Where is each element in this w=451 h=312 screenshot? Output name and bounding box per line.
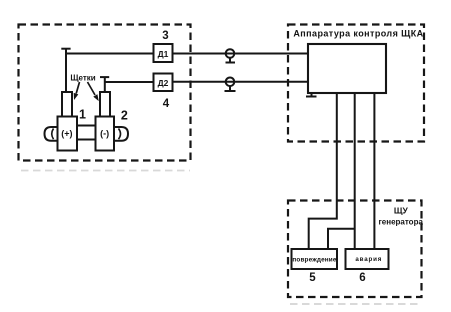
svg-text:Щетки: Щетки [70, 74, 95, 83]
wire brush1 vertical [65, 49, 67, 92]
faint scan echo under left enclosure [21, 170, 190, 172]
svg-text:Д2: Д2 [158, 78, 169, 88]
wire brush2 to D2 [105, 81, 154, 83]
svg-text:5: 5 [309, 272, 316, 284]
left ear (shaft end left) [45, 127, 58, 141]
sensor D1 box [154, 44, 173, 62]
faint scan echo under bottom enclosure [290, 303, 420, 305]
dashed enclosure left (machine with brushes) [19, 25, 191, 161]
svg-text:ЩУ: ЩУ [394, 206, 409, 216]
connector symbol 1 [226, 49, 235, 58]
arrow to brush 1 [76, 82, 79, 94]
svg-text:2: 2 [121, 108, 128, 122]
slip ring body (+) [58, 117, 78, 151]
wire 1 apparatus to box5 [309, 93, 337, 249]
svg-text:6: 6 [359, 272, 365, 284]
svg-text:(-): (-) [100, 129, 109, 139]
shaft between bodies [77, 126, 96, 140]
apparatus main box [308, 44, 386, 93]
wire 2 apparatus to box6 with branch to box5 [328, 93, 355, 249]
dashed enclosure bottom (generator control panel) [288, 201, 422, 298]
svg-text:генератора: генератора [378, 218, 423, 227]
brush 1 [62, 92, 72, 117]
wire D1 to apparatus [173, 53, 309, 55]
svg-text:3: 3 [162, 30, 168, 42]
wire brush1 to D1 [66, 53, 154, 55]
arrow to brush 2 [88, 82, 96, 95]
svg-text:4: 4 [163, 98, 170, 110]
sensor D2 box [154, 74, 173, 92]
svg-text:1: 1 [79, 107, 86, 121]
right ear (shaft end right) [114, 127, 128, 141]
brush 2 [100, 92, 110, 117]
svg-text:Д1: Д1 [158, 49, 169, 59]
connector symbol 2 [226, 78, 235, 87]
svg-text:повреждение: повреждение [292, 256, 336, 263]
dashed enclosure right (control apparatus) [288, 25, 424, 142]
slip ring body (-) [96, 117, 115, 151]
wire D2 to apparatus [173, 81, 309, 83]
wire 3 apparatus to box6 [373, 93, 375, 249]
wire brush2 vertical [104, 77, 106, 92]
lamp box 6 [346, 249, 389, 269]
svg-text:(+): (+) [61, 129, 72, 139]
terminal T on brush 2 wire [100, 76, 109, 78]
ground mark under apparatus [306, 93, 317, 97]
svg-text:Аппаратура контроля ЩКА: Аппаратура контроля ЩКА [293, 29, 423, 39]
svg-text:авария: авария [355, 256, 382, 263]
lamp box 5 [292, 249, 338, 269]
terminal T on brush 1 wire [61, 48, 70, 50]
